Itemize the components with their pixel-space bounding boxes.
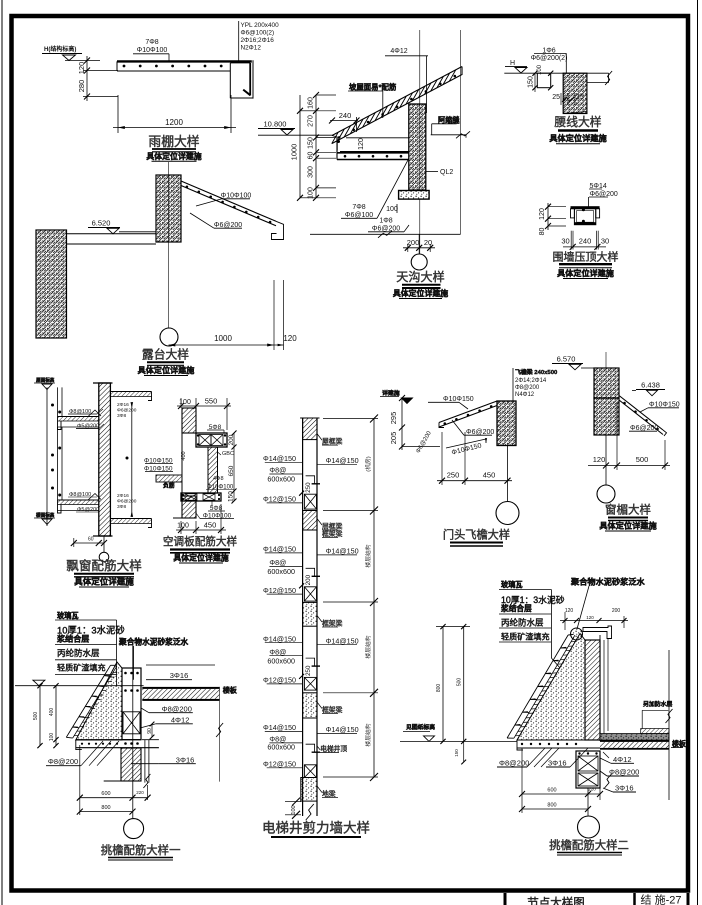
eave2 wall inner face lines — [599, 635, 601, 741]
svg-text:1200: 1200 — [165, 118, 183, 127]
svg-text:250: 250 — [305, 665, 312, 676]
elevator stirrup X-box group 2 — [304, 587, 316, 601]
svg-text:4Φ12: 4Φ12 — [390, 48, 407, 55]
svg-text:Φ14@150: Φ14@150 — [326, 725, 359, 734]
svg-text:3Φ16: 3Φ16 — [176, 756, 195, 765]
svg-text:Φ14@150: Φ14@150 — [263, 545, 296, 554]
lintel bottom dim 120 500 — [616, 402, 618, 470]
gutter wall — [409, 104, 426, 190]
svg-text:Φ10Φ100: Φ10Φ100 — [137, 47, 168, 54]
svg-text:另加防水层: 另加防水层 — [643, 700, 673, 708]
eave2 tile band — [514, 635, 575, 738]
canopy left dim extension lines — [65, 60, 100, 62]
svg-text:门头飞檐大样: 门头飞檐大样 — [443, 528, 510, 542]
eave1 legend leader — [116, 620, 118, 686]
svg-text:800: 800 — [547, 803, 556, 809]
gutter right level line with break — [431, 134, 466, 136]
svg-text:详建施: 详建施 — [382, 389, 400, 397]
elevator band label 框架梁 — [317, 616, 322, 623]
elevator bracket arrow — [370, 507, 378, 515]
door eave sloped slab — [439, 401, 497, 423]
eave1 dim 90 rot — [151, 724, 153, 737]
eave2 dim 150 rot — [463, 741, 465, 762]
svg-text:玻璃瓦: 玻璃瓦 — [57, 611, 79, 620]
gutter left dim chain inner — [315, 95, 317, 198]
eave2 concrete triangle — [517, 634, 585, 741]
bay window wall bottom cap — [93, 535, 113, 537]
svg-text:600x600: 600x600 — [267, 743, 295, 752]
eave1 left dim lines — [39, 686, 41, 746]
svg-text:节点大样图: 节点大样图 — [527, 896, 585, 905]
terrace axis line — [168, 162, 170, 328]
eave2 bottom dim 600 220 — [521, 748, 523, 813]
svg-text:Φ8@200: Φ8@200 — [515, 385, 540, 391]
svg-text:25: 25 — [576, 94, 584, 101]
elevator shaft detail 电梯井剪力墙大样 group — [262, 415, 378, 838]
svg-text:450: 450 — [204, 521, 217, 530]
elevator bracket arrow — [370, 598, 378, 606]
eave2 left dim lines — [442, 627, 444, 742]
bay window left dim lines — [46, 387, 48, 526]
eave detail two 挑檐配筋大样二 group — [400, 577, 686, 856]
svg-text:200: 200 — [228, 434, 235, 445]
svg-text:2Φ16: 2Φ16 — [117, 402, 129, 408]
svg-text:150: 150 — [228, 491, 235, 502]
svg-text:玻璃瓦: 玻璃瓦 — [501, 580, 523, 589]
svg-text:120: 120 — [539, 208, 546, 220]
gutter eave tip hook — [332, 136, 337, 151]
terrace floor slab — [67, 233, 157, 235]
svg-text:具体定位详建施: 具体定位详建施 — [393, 288, 448, 298]
gutter detail 天沟大样 group — [258, 30, 470, 299]
eave1 soffit — [76, 739, 141, 741]
svg-text:25: 25 — [552, 94, 560, 101]
door eave left dim — [401, 398, 403, 450]
svg-text:具体定位详建施: 具体定位详建施 — [73, 577, 134, 587]
svg-text:90: 90 — [147, 728, 153, 734]
svg-text:天沟大样: 天沟大样 — [396, 269, 444, 284]
svg-text:4Φ12: 4Φ12 — [171, 716, 190, 725]
door eave axis line — [507, 446, 509, 502]
eave2 axis bubble — [578, 816, 600, 838]
lintel axis line bottom — [605, 435, 607, 485]
bay window upper right slab — [110, 391, 151, 393]
svg-text:具体定位详建施: 具体定位详建施 — [548, 133, 607, 143]
svg-text:Φ6@200(2): Φ6@200(2) — [531, 55, 568, 62]
elevator band label 地梁 — [317, 786, 322, 793]
eave1 bottom dim 600 220 — [79, 745, 81, 815]
AC slab detail 空调板配筋大样 group — [144, 397, 237, 564]
svg-text:楼层结构: 楼层结构 — [364, 723, 372, 746]
door eave axis bubble — [496, 502, 519, 525]
eave2 beam — [576, 751, 600, 788]
svg-text:600x600: 600x600 — [267, 474, 295, 483]
svg-text:205: 205 — [389, 432, 398, 445]
svg-text:具体定位详建施: 具体定位详建施 — [146, 151, 201, 161]
svg-text:600: 600 — [101, 791, 110, 797]
svg-text:120: 120 — [593, 455, 606, 464]
svg-text:具体定位详建施: 具体定位详建施 — [137, 365, 195, 375]
svg-text:120: 120 — [565, 608, 574, 614]
svg-text:Φ6@100(2): Φ6@100(2) — [241, 30, 275, 37]
svg-text:100: 100 — [49, 733, 55, 742]
eave2 right grid line — [668, 650, 670, 800]
canopy left dim line — [86, 56, 88, 101]
eave2 floor slab — [600, 740, 669, 742]
svg-text:楼板: 楼板 — [223, 686, 238, 695]
svg-text:500: 500 — [636, 455, 649, 464]
waistline right level line with break — [587, 82, 609, 84]
elevator floor band 1 — [303, 418, 317, 440]
svg-text:220: 220 — [136, 790, 144, 795]
eave1 beam top dots — [124, 672, 127, 675]
svg-text:具体定位详建施: 具体定位详建施 — [173, 553, 228, 563]
eave2 screed dark strip — [600, 734, 669, 741]
svg-text:120: 120 — [586, 615, 594, 620]
lintel wall upper — [594, 368, 619, 398]
coping left dim chain — [547, 203, 549, 230]
bay window bottom dim — [74, 542, 104, 544]
elevator band label 框架梁 — [317, 702, 322, 709]
eave1 right grid line — [219, 687, 221, 782]
terrace axis bubble — [160, 328, 178, 346]
gutter roof slab end cut — [461, 67, 463, 76]
AC wall left edge — [181, 408, 183, 518]
svg-text:800: 800 — [101, 805, 110, 811]
svg-text:60: 60 — [88, 537, 94, 543]
elevator band label 层框梁 — [317, 519, 322, 526]
bay window lower right slab — [110, 518, 151, 520]
AC dim 200 rot — [233, 433, 235, 447]
canopy slab rebar dots 7Φ8 — [123, 65, 126, 68]
gutter level line — [258, 134, 333, 136]
terrace dim 1000 120 — [273, 280, 275, 350]
outer thin border line left — [1, 0, 3, 905]
svg-text:800: 800 — [436, 684, 442, 693]
svg-text:楼层结构: 楼层结构 — [364, 635, 372, 658]
lintel wall lower — [594, 398, 619, 435]
gutter left dim chain outer 1000 — [299, 95, 301, 198]
door eave note 飞檐梁 240x500 — [512, 368, 514, 401]
elevator bracket arrow — [370, 689, 378, 697]
svg-text:电梯井顶: 电梯井顶 — [320, 744, 347, 753]
svg-text:3Φ16: 3Φ16 — [615, 784, 634, 793]
svg-text:100: 100 — [177, 523, 189, 530]
svg-text:N4Φ12: N4Φ12 — [515, 392, 535, 398]
eave2 level triangle — [424, 736, 435, 742]
outer thin border line right — [697, 0, 699, 905]
svg-text:负筋: 负筋 — [163, 482, 175, 490]
eave1 tile band — [73, 666, 117, 738]
svg-text:结 施-27: 结 施-27 — [641, 894, 682, 905]
canopy detail 雨棚大样 group — [42, 21, 279, 161]
eave1 soffit rebar dots — [81, 743, 83, 745]
eave2 axis line — [587, 788, 589, 816]
svg-text:地梁: 地梁 — [322, 789, 336, 798]
AC top beam — [196, 433, 227, 447]
svg-text:浆结合层: 浆结合层 — [56, 634, 89, 644]
terrace slab lip — [272, 221, 284, 239]
svg-text:Φ8@200: Φ8@200 — [499, 759, 529, 768]
svg-text:楼面标高: 楼面标高 — [36, 512, 55, 519]
svg-text:见图纸标高: 见图纸标高 — [406, 723, 435, 731]
svg-text:2Φ16: 2Φ16 — [117, 493, 129, 499]
AC wall lower — [182, 496, 196, 518]
eave1 edge beam — [122, 668, 141, 740]
svg-text:挑檐配筋大样一: 挑檐配筋大样一 — [101, 843, 181, 857]
svg-text:6.570: 6.570 — [557, 355, 576, 364]
svg-text:3Φ16: 3Φ16 — [548, 759, 567, 768]
svg-text:240: 240 — [339, 111, 352, 120]
canopy dim 1200 — [113, 127, 236, 129]
svg-text:H(结构标高): H(结构标高) — [44, 45, 76, 53]
AC outer wall vertical — [208, 447, 218, 493]
gutter trough inner line — [346, 137, 409, 139]
svg-text:4Φ8: 4Φ8 — [213, 476, 224, 482]
svg-text:Φ8@200: Φ8@200 — [48, 757, 78, 766]
elevator band label 屋框梁 — [317, 434, 322, 441]
bay window detail 飘窗配筋大样 group — [34, 377, 152, 588]
svg-text:GBC: GBC — [222, 451, 234, 457]
terrace sloped slab — [181, 181, 276, 221]
svg-text:200: 200 — [407, 238, 420, 247]
svg-text:Φ12@150: Φ12@150 — [263, 676, 296, 685]
svg-text:具体定位详建施: 具体定位详建施 — [598, 521, 657, 531]
svg-text:挑檐配筋大样二: 挑檐配筋大样二 — [549, 838, 629, 852]
svg-text:120: 120 — [77, 62, 86, 75]
svg-text:Φ8@: Φ8@ — [269, 647, 286, 656]
coping cap section — [571, 206, 600, 209]
AC wall upper — [182, 408, 196, 433]
svg-text:Φ14@150: Φ14@150 — [263, 454, 296, 463]
door eave pier — [497, 401, 516, 446]
waistline belt box — [537, 73, 550, 88]
svg-text:N2Φ12: N2Φ12 — [241, 45, 262, 52]
AC dim 150 rot — [233, 491, 235, 501]
elevator hook group 2 — [306, 568, 315, 576]
canopy beam bent-bar mark — [243, 90, 250, 96]
bay window right dim line — [131, 405, 133, 514]
svg-text:600x600: 600x600 — [267, 567, 295, 576]
svg-text:120: 120 — [358, 138, 365, 150]
lintel axis line top — [605, 352, 607, 368]
waistline wall — [563, 73, 587, 113]
elevator stirrup X-box group 3 — [304, 677, 316, 690]
svg-text:Φ12@150: Φ12@150 — [263, 760, 296, 769]
svg-text:150: 150 — [528, 76, 535, 88]
svg-text:轻质矿渣填充: 轻质矿渣填充 — [501, 632, 550, 642]
eave2 crown circle — [571, 628, 583, 640]
svg-text:2Φ14;2Φ14: 2Φ14;2Φ14 — [515, 378, 547, 384]
gutter axis grid line B — [460, 30, 462, 234]
elevator stirrup X-box group 1 — [304, 494, 316, 509]
door eave detail 门头飞檐大样 group — [380, 368, 558, 546]
svg-text:30: 30 — [601, 237, 609, 246]
svg-text:1000: 1000 — [290, 144, 299, 161]
svg-text:100: 100 — [291, 805, 297, 814]
svg-text:Φ8@200: Φ8@200 — [609, 768, 639, 777]
svg-text:60: 60 — [308, 152, 315, 160]
eave2 bottom dim 800 — [522, 808, 588, 810]
svg-text:3Φ8: 3Φ8 — [117, 504, 126, 510]
eave2 wall hatch — [585, 640, 600, 740]
bay window upper left slab — [58, 416, 99, 418]
svg-text:Φ14@150: Φ14@150 — [326, 456, 359, 465]
svg-text:150: 150 — [308, 137, 315, 149]
svg-text:QL2: QL2 — [440, 169, 453, 176]
elevator stirrup X-box group 4 — [304, 765, 316, 778]
eave2 top dims 120 120 200 — [564, 612, 566, 630]
canopy slab — [117, 60, 252, 62]
gutter axis bubble — [418, 234, 420, 254]
coping detail 围墙压顶大样 group — [539, 183, 619, 279]
svg-text:300: 300 — [308, 166, 315, 178]
svg-text:聚合物水泥砂浆泛水: 聚合物水泥砂浆泛水 — [570, 577, 646, 587]
bay window axis bubble — [103, 536, 105, 553]
svg-text:框架梁: 框架梁 — [322, 529, 343, 538]
bay window wall — [99, 383, 111, 536]
door eave bottom dim 250 450 — [441, 432, 443, 485]
svg-text:160: 160 — [308, 97, 315, 109]
gutter axis grid line A — [419, 30, 421, 254]
svg-text:100: 100 — [179, 399, 191, 406]
svg-text:(机房): (机房) — [364, 456, 372, 472]
svg-text:295: 295 — [389, 412, 398, 425]
svg-text:丙纶防水层: 丙纶防水层 — [57, 648, 100, 658]
eave1 axis line — [132, 646, 134, 818]
svg-text:阿缩缝: 阿缩缝 — [438, 116, 460, 125]
eave1 axis bubble — [124, 819, 144, 839]
svg-text:轻质矿渣填充: 轻质矿渣填充 — [57, 663, 106, 673]
svg-text:框架梁: 框架梁 — [322, 619, 343, 628]
svg-text:650: 650 — [228, 465, 235, 476]
svg-text:屋框梁: 屋框梁 — [322, 437, 343, 446]
bay window upper rebar hooks — [88, 410, 101, 417]
svg-text:400: 400 — [49, 708, 55, 717]
eave1 lower wall — [121, 748, 141, 781]
bay window wall top cap — [93, 382, 113, 384]
elevator bottom dim 100 — [292, 798, 300, 806]
svg-text:500: 500 — [33, 712, 39, 721]
elevator floor band 4 — [303, 693, 317, 718]
elevator hook group 1 — [306, 476, 315, 484]
svg-text:Φ14@150: Φ14@150 — [326, 636, 359, 645]
gutter wall bottom beam — [399, 191, 430, 200]
svg-text:120: 120 — [283, 334, 297, 343]
svg-text:露台大样: 露台大样 — [142, 348, 189, 362]
svg-text:框架梁: 框架梁 — [322, 705, 343, 714]
canopy dim 1200 extension lines — [117, 95, 119, 133]
bay window dim dots — [51, 404, 54, 407]
gutter roof sloped slab — [332, 67, 462, 136]
svg-text:YPL 200x400: YPL 200x400 — [241, 22, 280, 29]
eave1 wall face lines — [144, 740, 146, 783]
door eave slab lip — [439, 423, 444, 428]
elevator hook group 4 — [306, 744, 315, 752]
svg-text:250: 250 — [305, 482, 312, 493]
elevator bracket arrow — [370, 415, 378, 423]
svg-text:220: 220 — [588, 787, 596, 792]
svg-text:600: 600 — [547, 788, 556, 794]
eave1 top line 3Φ16 leader — [146, 664, 215, 666]
eave1 level line — [15, 685, 144, 687]
svg-text:3Φ16: 3Φ16 — [170, 671, 189, 680]
lintel slab lip — [663, 430, 667, 436]
terrace left pier — [36, 230, 67, 338]
terrace detail 露台大样 group — [36, 162, 297, 376]
elevator floor band 5 — [301, 778, 317, 802]
eave1 bottom dim 800 — [80, 811, 133, 813]
svg-text:1Φ8: 1Φ8 — [379, 218, 392, 225]
svg-text:200: 200 — [305, 574, 312, 585]
waistline wall bottom jagged cut — [563, 112, 587, 114]
svg-text:3Φ8: 3Φ8 — [117, 413, 126, 419]
AC dim 650 rot — [233, 447, 235, 491]
svg-text:500: 500 — [457, 678, 463, 687]
eave2 legend leader — [550, 590, 552, 659]
svg-text:Φ14@150: Φ14@150 — [326, 547, 359, 556]
eave1 soffit side line — [142, 739, 159, 741]
canopy edge beam YPL — [230, 62, 250, 64]
elevator bracket arrow — [370, 773, 378, 781]
svg-text:楼板: 楼板 — [672, 739, 686, 748]
svg-text:窗楣大样: 窗楣大样 — [605, 503, 651, 517]
svg-text:飞檐梁 240x500: 飞檐梁 240x500 — [515, 368, 558, 376]
coping bottom dim 30 240 30 — [570, 231, 572, 250]
eave1 floor slab — [142, 687, 219, 689]
gutter trough bottom slab — [340, 151, 409, 153]
svg-text:550: 550 — [205, 397, 218, 406]
svg-text:200: 200 — [612, 608, 621, 614]
svg-text:Φ14@150: Φ14@150 — [263, 723, 296, 732]
terrace wall — [156, 175, 181, 242]
elevator right bracket line — [373, 419, 375, 778]
eave2 cap bar — [583, 626, 612, 639]
svg-text:250: 250 — [447, 471, 460, 480]
svg-text:浆结合层: 浆结合层 — [500, 603, 532, 613]
elevator floor band 3 — [303, 602, 317, 626]
gutter dim chain extensions — [316, 94, 336, 96]
elevator wall right edge — [316, 418, 318, 816]
svg-text:100: 100 — [386, 206, 398, 213]
svg-text:80: 80 — [539, 228, 546, 236]
lintel axis bubble — [597, 485, 615, 503]
svg-text:聚合物水泥砂浆泛水: 聚合物水泥砂浆泛水 — [118, 637, 189, 647]
window lintel detail 窗楣大样 group — [552, 352, 680, 531]
svg-text:Φ14@150: Φ14@150 — [263, 634, 296, 643]
svg-text:6.520: 6.520 — [92, 219, 111, 228]
svg-text:Φ6@200: Φ6@200 — [117, 408, 137, 414]
svg-text:H: H — [510, 60, 515, 67]
svg-text:400: 400 — [181, 451, 187, 460]
elevator wall left edge — [302, 418, 304, 816]
title block divider 2 — [633, 893, 636, 905]
svg-text:7Φ8: 7Φ8 — [352, 204, 365, 211]
svg-text:丙纶防水层: 丙纶防水层 — [501, 618, 544, 628]
eave1 beam mid dots — [124, 689, 127, 692]
svg-text:150: 150 — [454, 749, 459, 757]
svg-text:飘窗配筋大样: 飘窗配筋大样 — [66, 558, 142, 573]
svg-text:2Φ16;2Φ16: 2Φ16;2Φ16 — [241, 37, 275, 44]
gutter bottom ground line with break — [310, 233, 461, 235]
svg-text:30: 30 — [561, 237, 569, 246]
svg-text:屋面标高: 屋面标高 — [36, 377, 55, 384]
svg-text:1000: 1000 — [214, 334, 232, 343]
svg-text:雨棚大样: 雨棚大样 — [148, 134, 199, 149]
eave1 beam bottom dots — [124, 742, 127, 745]
title block divider 3 — [687, 893, 690, 905]
AC slab top dim 100 550 — [180, 398, 182, 408]
